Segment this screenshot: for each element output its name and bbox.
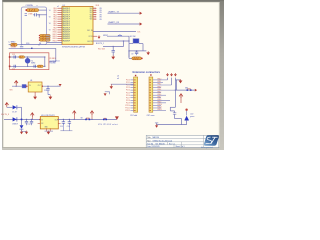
svg-text:VB: VB xyxy=(99,17,101,19)
svg-text:USART1_RX: USART1_RX xyxy=(108,21,120,24)
svg-text:VB: VB xyxy=(99,14,101,16)
svg-text:C14: C14 xyxy=(12,68,15,70)
svg-text:Extension connectors: Extension connectors xyxy=(133,70,161,74)
svg-text:PC16: PC16 xyxy=(126,95,130,97)
svg-text:L2 BEAD: L2 BEAD xyxy=(9,41,17,44)
svg-text:Rev:: Rev: xyxy=(147,140,151,142)
svg-text:PC19: PC19 xyxy=(126,102,130,104)
svg-text:PB112: PB112 xyxy=(158,109,163,111)
svg-text:o1: o1 xyxy=(57,6,59,8)
svg-text:use MCO from: use MCO from xyxy=(50,60,61,62)
svg-text:R10 10K: R10 10K xyxy=(98,48,106,50)
svg-text:Title:: Title: xyxy=(147,136,151,139)
svg-text:IN: IN xyxy=(29,85,31,87)
svg-text:LD2: LD2 xyxy=(190,113,193,115)
svg-text:VD4: VD4 xyxy=(90,16,93,18)
svg-text:VB: VB xyxy=(49,16,51,18)
svg-text:CN7 odd: CN7 odd xyxy=(130,115,137,117)
svg-text:PB17: PB17 xyxy=(158,96,162,98)
svg-text:PB13: PB13 xyxy=(158,86,162,88)
svg-text:STM32 Nucleo-64 board: STM32 Nucleo-64 board xyxy=(153,140,173,142)
svg-text:OUT: OUT xyxy=(38,85,41,87)
svg-text:C16: C16 xyxy=(67,126,70,128)
svg-text:VB: VB xyxy=(49,36,51,38)
svg-text:P3: P3 xyxy=(94,14,96,16)
svg-text:VB: VB xyxy=(49,23,51,25)
svg-text:VD2: VD2 xyxy=(90,12,93,14)
svg-text:Ref: MB1136: Ref: MB1136 xyxy=(156,143,165,145)
svg-text:PC111: PC111 xyxy=(125,108,130,110)
svg-text:1N5819: 1N5819 xyxy=(12,123,18,125)
svg-text:BOOT0: BOOT0 xyxy=(88,41,93,43)
svg-text:green: green xyxy=(190,116,194,118)
svg-text:C12: C12 xyxy=(44,90,47,92)
svg-text:PC11: PC11 xyxy=(126,82,130,84)
svg-text:life.augmented: life.augmented xyxy=(201,146,213,149)
svg-text:PC13: PC13 xyxy=(126,87,130,89)
svg-text:VB: VB xyxy=(99,10,101,12)
svg-text:SB: SB xyxy=(81,118,83,120)
svg-text:R9 SB16: R9 SB16 xyxy=(50,58,56,60)
svg-text:U5V JP5 E5V select: U5V JP5 E5V select xyxy=(98,123,119,126)
svg-text:USART1_TX: USART1_TX xyxy=(108,10,120,13)
svg-text:P5: P5 xyxy=(94,19,96,21)
svg-text:VD1: VD1 xyxy=(90,10,93,12)
svg-text:P4: P4 xyxy=(94,17,96,19)
svg-text:VB: VB xyxy=(99,8,101,10)
svg-text:OSC_IN: OSC_IN xyxy=(87,30,92,32)
svg-text:PB11: PB11 xyxy=(158,81,162,83)
svg-text:C15: C15 xyxy=(60,126,63,128)
svg-text:PC17: PC17 xyxy=(126,97,130,99)
svg-text:MB1136: MB1136 xyxy=(153,137,160,139)
svg-text:P2: P2 xyxy=(94,12,96,14)
svg-text:OUT: OUT xyxy=(55,119,58,121)
svg-text:Rev: C.1: Rev: C.1 xyxy=(169,143,175,145)
svg-text:VD3: VD3 xyxy=(90,14,93,16)
svg-text:PB111: PB111 xyxy=(158,107,162,109)
svg-text:PC14: PC14 xyxy=(126,90,130,92)
svg-text:PC110: PC110 xyxy=(125,105,130,107)
svg-text:CN7 even: CN7 even xyxy=(147,115,155,117)
svg-text:PC13: PC13 xyxy=(89,36,93,38)
svg-text:GND: GND xyxy=(45,127,48,129)
svg-text:PB15: PB15 xyxy=(158,91,162,93)
svg-text:PB14: PB14 xyxy=(158,89,162,91)
svg-text:E5V 5V_S: E5V 5V_S xyxy=(1,114,10,116)
svg-text:PB110: PB110 xyxy=(158,104,163,106)
svg-text:PC112: PC112 xyxy=(125,110,130,112)
svg-text:o4: o4 xyxy=(117,78,119,80)
svg-text:PB19: PB19 xyxy=(158,102,162,104)
svg-text:B1 SW: B1 SW xyxy=(130,36,136,38)
svg-text:o: o xyxy=(37,5,38,7)
svg-text:PC10: PC10 xyxy=(126,80,130,82)
svg-text:NC: NC xyxy=(41,123,43,125)
svg-text:PC12: PC12 xyxy=(126,85,130,87)
svg-text:VB: VB xyxy=(49,30,51,32)
svg-text:CN3/PA: CN3/PA xyxy=(26,4,34,7)
svg-text:VB: VB xyxy=(49,10,51,12)
svg-text:5V_ST: 5V_ST xyxy=(12,111,17,113)
svg-text:IN: IN xyxy=(41,119,42,121)
svg-text:VB: VB xyxy=(99,19,101,21)
svg-text:PB12: PB12 xyxy=(158,84,162,86)
svg-text:VD5: VD5 xyxy=(90,19,93,21)
svg-text:X1: X1 xyxy=(31,60,33,62)
svg-text:C17: C17 xyxy=(28,124,31,126)
svg-text:PC15: PC15 xyxy=(126,92,130,94)
svg-text:PC18: PC18 xyxy=(126,100,130,102)
svg-text:VD0: VD0 xyxy=(90,8,93,10)
svg-text:C9: C9 xyxy=(131,54,133,56)
svg-text:VB: VB xyxy=(99,12,101,14)
svg-text:PB18: PB18 xyxy=(158,99,162,101)
svg-text:STM32F103CBT6/LQFP48: STM32F103CBT6/LQFP48 xyxy=(62,47,85,49)
svg-text:8MHz: 8MHz xyxy=(31,63,35,65)
svg-text:U3 LD1117S50TR: U3 LD1117S50TR xyxy=(41,115,55,117)
svg-text:SB6: SB6 xyxy=(185,87,188,89)
svg-text:ST-LINK: ST-LINK xyxy=(50,63,57,65)
svg-text:BOOT0_1: BOOT0_1 xyxy=(96,43,104,45)
svg-text:C13: C13 xyxy=(12,54,15,56)
svg-text:P0: P0 xyxy=(94,8,96,10)
svg-text:P1: P1 xyxy=(94,10,96,12)
svg-text:PB10: PB10 xyxy=(158,79,162,81)
svg-text:VDDA: VDDA xyxy=(11,46,17,49)
svg-text:U4: U4 xyxy=(30,80,32,82)
svg-text:PB16: PB16 xyxy=(158,94,162,96)
